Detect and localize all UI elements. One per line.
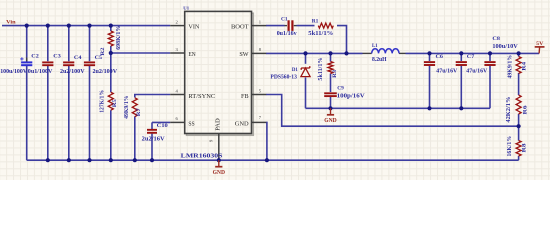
pin name BOOT — [231, 24, 249, 31]
svg-text:42K2/1%: 42K2/1% — [506, 97, 512, 123]
svg-text:R1: R1 — [312, 19, 319, 25]
svg-text:5k11/1%: 5k11/1% — [308, 31, 333, 37]
wire C6 bottom lead — [429, 66, 431, 108]
wire SW to D1 — [305, 53, 307, 63]
junction gnd-R5 — [109, 158, 113, 162]
svg-text:49K9/1%: 49K9/1% — [508, 55, 514, 79]
junction Vin-C2 — [25, 24, 29, 28]
wire GND pin to rail — [265, 122, 268, 160]
pin number 5 — [259, 88, 262, 93]
designator C1 — [281, 17, 288, 23]
value C8 100u/10V — [492, 44, 518, 50]
value C6 47u/16V — [436, 69, 458, 75]
svg-text:U1: U1 — [183, 6, 190, 11]
svg-text:100p/16V: 100p/16V — [337, 93, 366, 99]
wire C7 top lead — [460, 53, 462, 61]
svg-text:16K/1%: 16K/1% — [507, 136, 513, 157]
junction Vin-C5 — [87, 24, 91, 28]
wire L1 to output — [406, 52, 540, 54]
wire FB to divider — [266, 95, 519, 127]
value R8 16K/1% — [507, 136, 513, 157]
pin name GND — [235, 120, 249, 127]
svg-text:47u/16V: 47u/16V — [466, 69, 488, 75]
capacitor C4 symbol — [63, 62, 74, 65]
svg-text:C6: C6 — [436, 54, 444, 60]
value R4 49K9/1% — [508, 55, 514, 79]
designator C2 — [31, 53, 39, 59]
pin number 4 — [176, 88, 179, 93]
ground at PAD — [213, 160, 226, 176]
value C10 2u2/16V — [142, 136, 166, 142]
pin number 3 — [176, 47, 179, 52]
pin name PAD — [214, 118, 221, 131]
svg-text:C9: C9 — [337, 86, 344, 92]
junction SW-D1 — [303, 51, 307, 55]
svg-text:5k11/1%: 5k11/1% — [318, 57, 324, 80]
svg-text:C10: C10 — [157, 123, 168, 129]
svg-text:GND: GND — [235, 120, 249, 127]
svg-text:R3: R3 — [332, 70, 338, 78]
svg-text:0u1/100V: 0u1/100V — [28, 69, 53, 75]
value C4 — [60, 69, 85, 75]
pin name VIN — [188, 24, 199, 31]
pin 6 SS — [170, 121, 185, 123]
junction SW-R3 — [328, 51, 332, 55]
resistor R8 symbol — [516, 141, 521, 157]
value C9 100p/16V — [337, 93, 366, 99]
junction out-R4 — [517, 51, 521, 55]
svg-text:R7: R7 — [136, 108, 142, 116]
junction EN node — [109, 51, 113, 55]
designator R3 — [332, 70, 338, 78]
capacitor C2 symbol — [20, 57, 32, 65]
wire C4 top lead — [68, 26, 70, 62]
wire R7 bottom lead — [134, 117, 136, 161]
designator C4 — [74, 55, 82, 61]
svg-text:C4: C4 — [74, 55, 82, 61]
pin 8 SW — [252, 52, 267, 54]
svg-text:R4: R4 — [521, 61, 527, 70]
wire SW to L1 — [266, 52, 363, 54]
wire R2 bottom to EN node — [110, 46, 112, 53]
wire C2 bottom lead — [26, 66, 28, 160]
junction gnd-C4 — [67, 158, 71, 162]
svg-text:GND: GND — [324, 118, 337, 124]
op IC shadow U1 — [187, 13, 254, 135]
value C2 100u/100V — [0, 69, 28, 75]
wire D1 anode to ground wire — [305, 78, 307, 109]
junction gnd-PAD — [217, 158, 221, 162]
designator C3 — [53, 53, 61, 59]
svg-text:127K/1%: 127K/1% — [100, 90, 106, 113]
value L1 8.2uH — [372, 57, 387, 63]
junction gnd-pin7 — [265, 158, 269, 162]
value R3 5k11/1% — [318, 57, 324, 80]
wire C1 to R1 — [297, 25, 315, 27]
pin 2 VIN — [170, 25, 185, 27]
designator C5 — [95, 55, 103, 61]
capacitor C5 symbol — [84, 62, 95, 65]
svg-text:2u2/16V: 2u2/16V — [142, 136, 166, 142]
resistor R1 symbol — [318, 23, 333, 28]
value D1 PDS560-13 — [270, 74, 297, 80]
wire EN to IC — [111, 52, 170, 54]
wire R1 to SW branch — [337, 26, 347, 54]
wire SS to IC — [152, 121, 170, 123]
junction gnd-R7 — [133, 158, 137, 162]
svg-text:698K/1%: 698K/1% — [116, 26, 122, 50]
svg-text:C2: C2 — [31, 53, 39, 59]
svg-text:49K9/1%: 49K9/1% — [124, 96, 130, 119]
svg-text:VIN: VIN — [188, 24, 199, 31]
wire output to R4 — [518, 53, 520, 56]
wire R8 to rail — [518, 156, 520, 160]
net label Vin — [6, 20, 16, 26]
designator C10 — [157, 123, 168, 129]
pin number 8 — [259, 47, 262, 52]
junction gnd-C3 — [46, 158, 50, 162]
wire R4 to R6 — [518, 73, 520, 95]
wire C8 top lead — [489, 53, 491, 61]
pin 5 FB — [252, 94, 267, 96]
wire Vin top rail — [2, 25, 170, 27]
designator R4 — [521, 61, 527, 70]
svg-text:FB: FB — [241, 93, 249, 100]
junction out-C8 — [488, 51, 492, 55]
junction out-C6 — [427, 51, 431, 55]
wire C5 bottom lead — [89, 66, 91, 160]
pin name RT/SYNC — [188, 93, 215, 100]
wire C10 top lead — [151, 122, 153, 129]
designator R1 — [312, 19, 319, 25]
capacitor C6 symbol — [424, 62, 435, 65]
designator U1 — [183, 6, 190, 11]
resistor R5 symbol — [108, 92, 113, 110]
designator C9 — [337, 86, 344, 92]
wire C6 top lead — [429, 53, 431, 61]
junction gnd-C5 — [87, 158, 91, 162]
svg-text:C1: C1 — [281, 17, 288, 23]
svg-text:R6: R6 — [522, 105, 528, 114]
wire C5 top lead — [89, 26, 91, 62]
wire C4 bottom lead — [68, 66, 70, 160]
wire C3 top lead — [47, 26, 49, 62]
svg-text:EN: EN — [188, 51, 195, 58]
svg-text:R2: R2 — [100, 47, 106, 55]
schematic background — [0, 0, 550, 180]
pin 3 EN — [170, 52, 185, 54]
resistor R4 symbol — [516, 57, 521, 74]
pin 4 RT/SYNC — [170, 94, 185, 96]
designator R2 — [100, 47, 106, 55]
resistor R6 symbol — [516, 95, 521, 114]
value R2 698K/1% — [116, 26, 122, 50]
capacitor C7 symbol — [456, 62, 467, 65]
wire R3 to C9 — [330, 74, 332, 93]
junction gndwire-C7 — [459, 106, 463, 110]
junction SW-boot branch — [344, 51, 348, 55]
wire C10 bottom lead — [151, 134, 153, 161]
wire right ground — [306, 107, 491, 109]
svg-text:SS: SS — [188, 120, 195, 127]
value C5 — [93, 69, 118, 75]
resistor R3 symbol — [328, 62, 333, 74]
wire BOOT to C1 — [266, 25, 285, 27]
resistor R2 symbol — [108, 31, 113, 46]
resistor R7 symbol — [132, 98, 137, 117]
svg-text:D1: D1 — [292, 67, 298, 73]
power port 5V — [535, 41, 545, 53]
designator R8 — [521, 143, 527, 152]
designator C7 — [467, 54, 475, 60]
pin number 2 — [176, 19, 179, 24]
pin 9 PAD — [218, 134, 220, 161]
junction Vin-C3 — [46, 24, 50, 28]
pin name SS — [188, 120, 195, 127]
junction Vin-C4 — [67, 24, 71, 28]
pin name FB — [241, 93, 249, 100]
designator C8 — [492, 36, 500, 42]
pin 7 GND — [252, 121, 267, 123]
svg-text:L1: L1 — [372, 43, 378, 49]
pin number 6 — [176, 116, 179, 121]
value R5 127K/1% — [100, 90, 106, 113]
svg-text:47u/16V: 47u/16V — [436, 69, 458, 75]
wire R2 top lead — [110, 26, 112, 31]
wire R6 to FB node — [518, 114, 520, 126]
wire C3 bottom lead — [47, 66, 49, 160]
svg-text:C8: C8 — [492, 36, 500, 42]
svg-text:2u2/100V: 2u2/100V — [60, 69, 85, 75]
value LMR16030S — [181, 153, 223, 160]
svg-text:0u1/16v: 0u1/16v — [277, 31, 297, 37]
svg-text:PDS560-13: PDS560-13 — [270, 74, 297, 80]
wire C2 top lead — [26, 26, 28, 62]
designator C6 — [436, 54, 444, 60]
wire C9 to ground wire — [330, 97, 332, 109]
wire C7 bottom lead — [460, 66, 462, 108]
svg-text:8.2uH: 8.2uH — [372, 57, 387, 63]
inductor L1 symbol — [363, 49, 406, 54]
junction Vin-R2 — [109, 24, 113, 28]
wire RT/SYNC to IC — [135, 95, 170, 98]
designator D1 — [292, 67, 298, 73]
pin name EN — [188, 51, 195, 58]
svg-text:C7: C7 — [467, 54, 475, 60]
pin number 7 — [259, 115, 262, 120]
junction FB divider — [517, 124, 521, 128]
capacitor C8 symbol — [484, 62, 495, 65]
svg-text:RT/SYNC: RT/SYNC — [188, 93, 215, 100]
pin number 1 — [259, 19, 262, 24]
pin number 9 — [209, 139, 214, 142]
designator R5 — [112, 99, 118, 107]
pin name SW — [239, 51, 249, 58]
junction out-C7 — [459, 51, 463, 55]
wire bottom ground rail — [27, 159, 519, 161]
capacitor C1 symbol — [285, 20, 297, 31]
wire R5 bottom lead — [110, 110, 112, 160]
value R1 5k11/1% — [308, 31, 333, 37]
wire SW to R3 — [330, 53, 332, 61]
junction gnd-C10 — [150, 158, 154, 162]
capacitor C3 symbol — [42, 62, 53, 65]
IC body U1 LMR16030S — [185, 11, 252, 133]
svg-text:2u2/100V: 2u2/100V — [93, 69, 118, 75]
wire EN node to R5 — [110, 53, 112, 92]
svg-text:C3: C3 — [53, 53, 61, 59]
designator R7 — [136, 108, 142, 116]
pin 1 BOOT — [252, 25, 267, 27]
junction gndwire-C9 — [328, 106, 332, 110]
svg-text:SW: SW — [239, 51, 249, 58]
value R7 49K9/1% — [124, 96, 130, 119]
svg-text:100u/100V: 100u/100V — [0, 69, 28, 75]
capacitor C10 symbol — [147, 130, 157, 133]
wire C8 bottom lead — [489, 66, 491, 108]
svg-text:Vin: Vin — [6, 20, 16, 26]
svg-text:5V: 5V — [536, 41, 543, 47]
wire FB node to R8 — [518, 126, 520, 140]
designator L1 — [372, 43, 378, 49]
svg-text:LMR16030S: LMR16030S — [181, 153, 223, 160]
diode D1 symbol — [301, 66, 310, 77]
value C1 0u1/16v — [277, 31, 297, 37]
value R6 42K2/1% — [506, 97, 512, 123]
ground at C9 — [324, 108, 337, 124]
designator R6 — [522, 105, 528, 114]
svg-text:BOOT: BOOT — [231, 24, 249, 31]
svg-text:GND: GND — [213, 170, 226, 176]
svg-text:R5: R5 — [112, 99, 118, 107]
value C3 — [28, 69, 53, 75]
capacitor C9 symbol — [324, 93, 337, 96]
svg-text:R8: R8 — [521, 143, 527, 152]
svg-text:100u/10V: 100u/10V — [492, 44, 518, 50]
junction gndwire-C6 — [427, 106, 431, 110]
value C7 47u/16V — [466, 69, 488, 75]
svg-text:PAD: PAD — [214, 118, 221, 131]
